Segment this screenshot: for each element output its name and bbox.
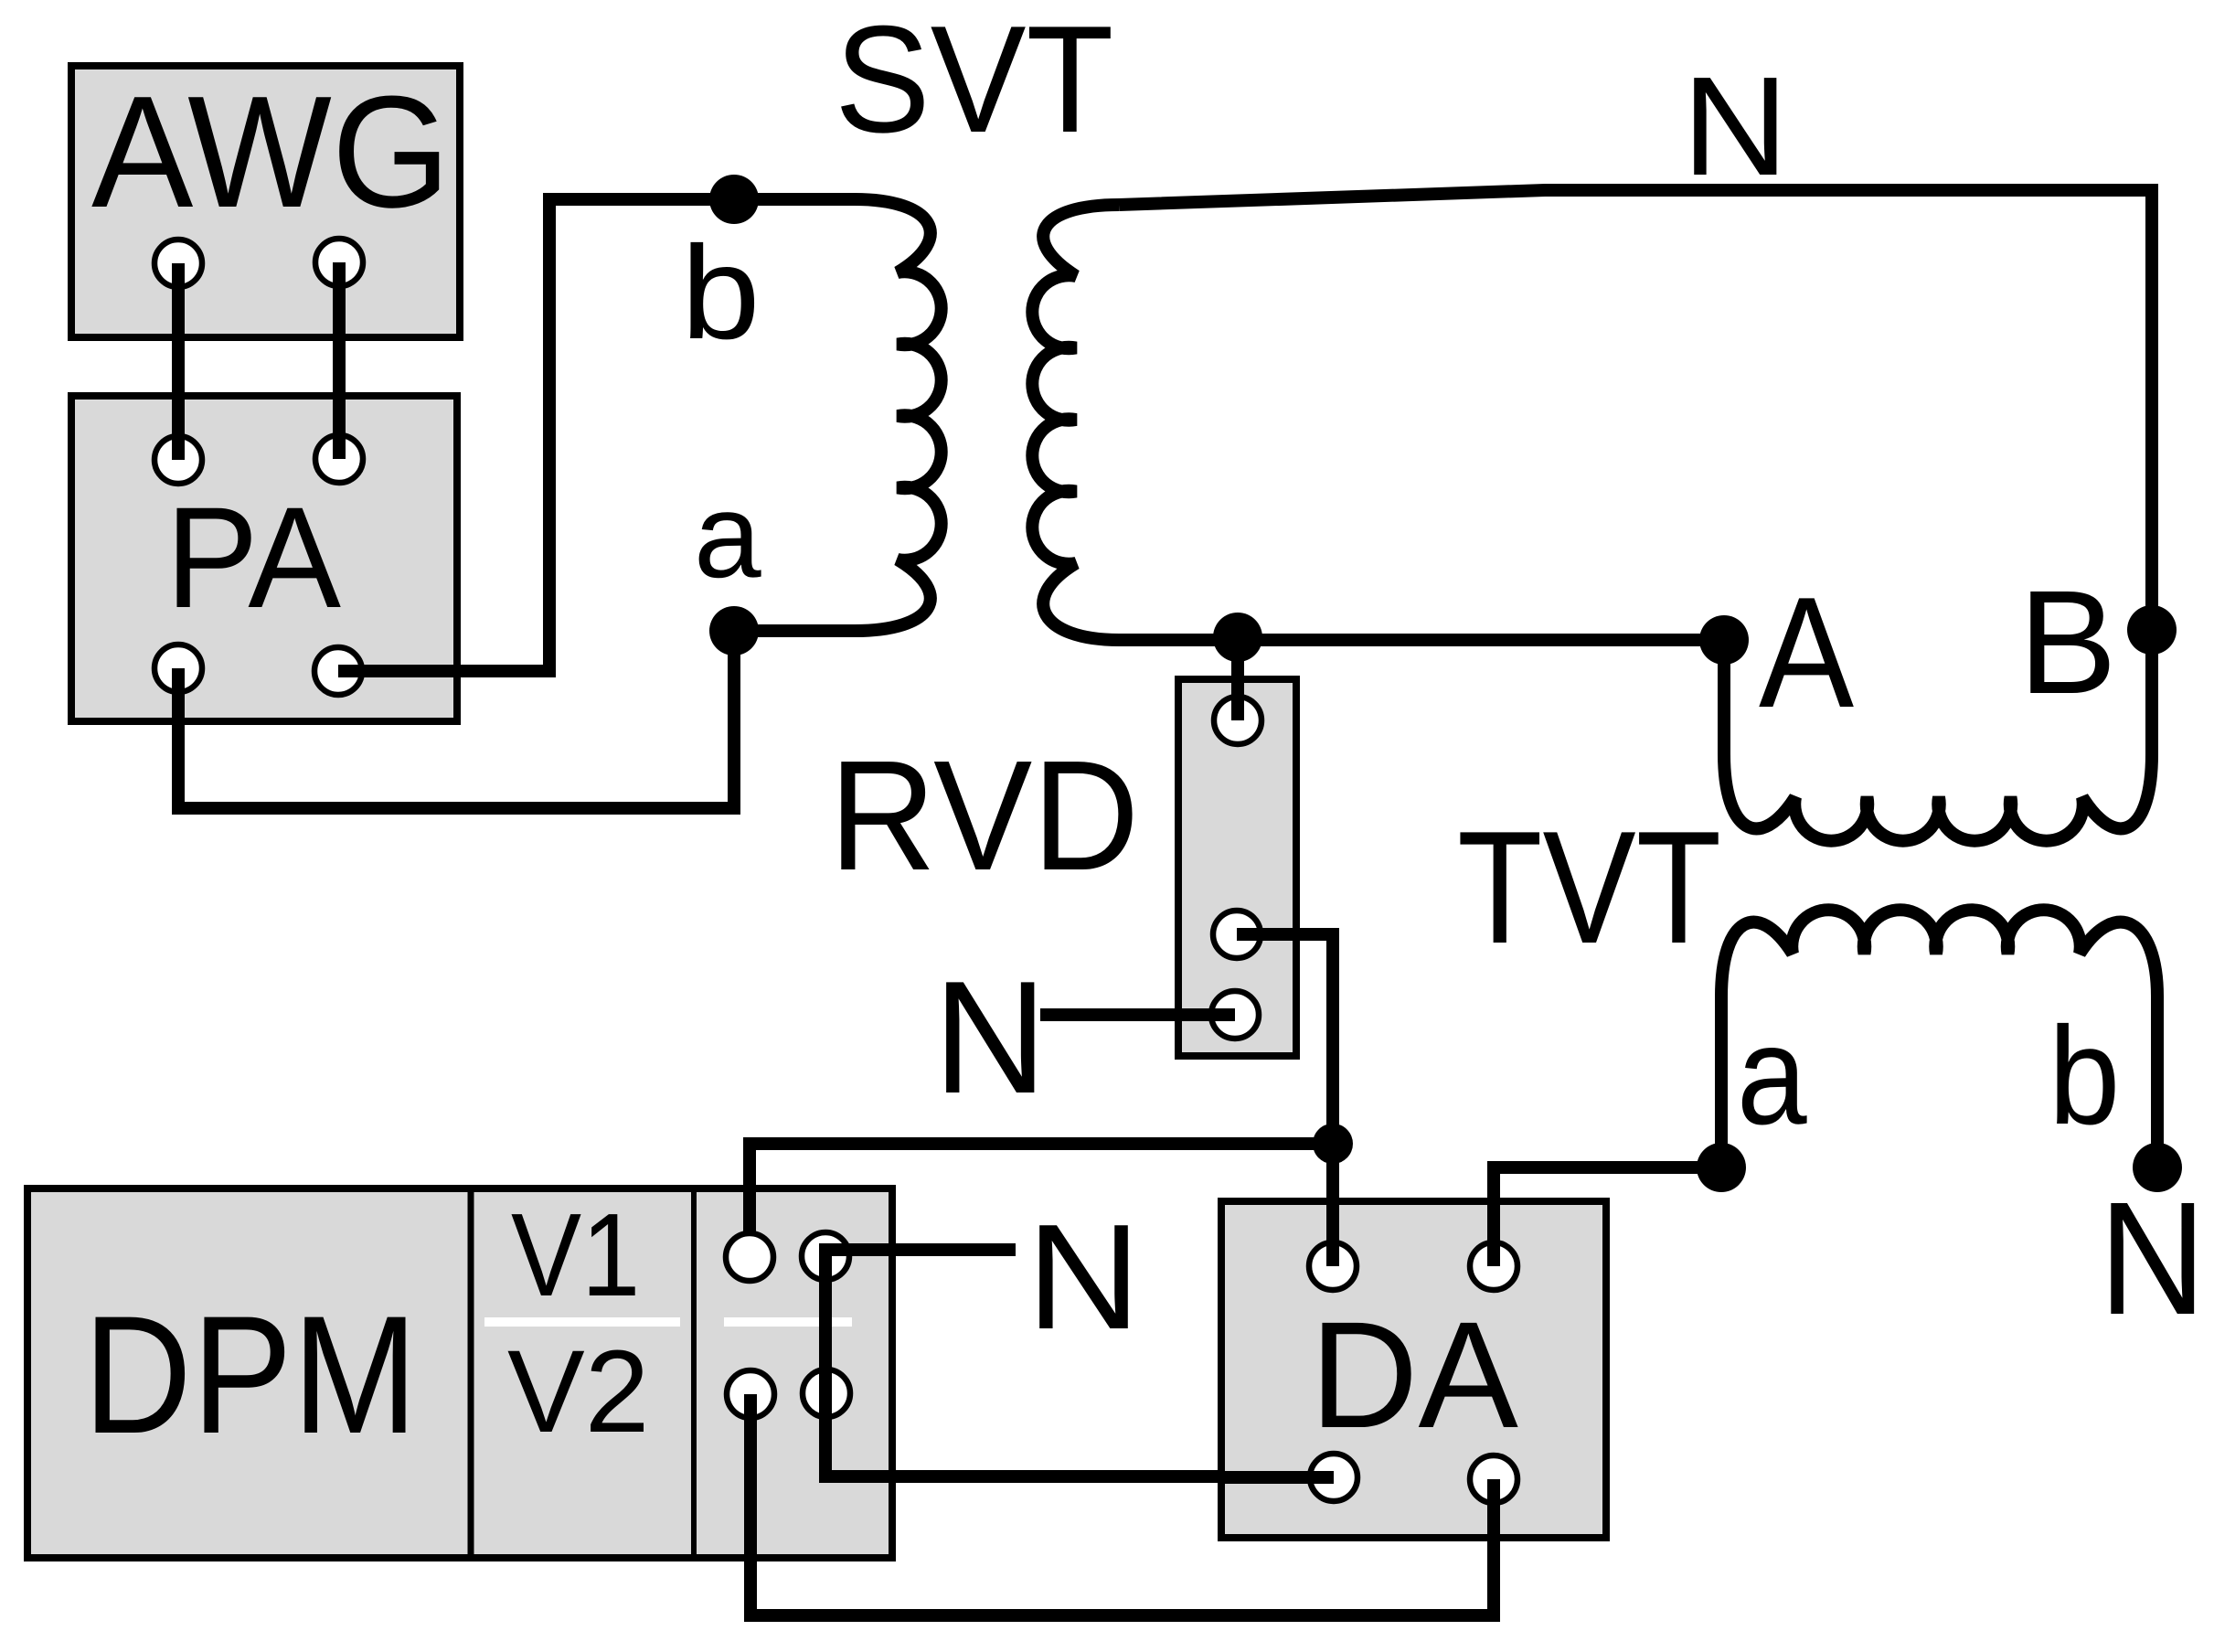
PA terminal top-left [154,436,202,484]
DA terminal top-left [1309,1242,1357,1290]
wire DPM V2-left to DA bottom-right [750,1394,1494,1615]
node RVD top junction [1213,613,1262,662]
svg-text:N: N [2099,1169,2206,1348]
svg-text:B: B [2018,560,2117,725]
DA terminal top-right [1470,1242,1517,1290]
svg-text:AWG: AWG [91,62,451,240]
wire RVD bottom to N label [1040,1008,1235,1021]
wire junction to DPM V1 left [750,1144,1333,1257]
node N' (TVT) [2133,1143,2182,1192]
DPM terminal V2-left [727,1370,774,1418]
AWG box [71,66,460,337]
svg-text:DPM: DPM [83,1281,418,1468]
svg-text:N: N [1682,48,1789,205]
svg-text:PA: PA [165,478,341,638]
svg-text:N: N [1027,1193,1141,1360]
wire PA bottom-right to node b [338,199,734,671]
DA box [1221,1201,1606,1538]
DA terminal bottom-left [1310,1454,1357,1501]
svg-text:A: A [1759,564,1854,741]
PA terminal bottom-right [314,647,362,695]
RVD box [1178,679,1296,1056]
AWG terminal right [315,239,363,286]
node b [709,175,759,224]
junction dot (RVD/DPM/DA) [1313,1124,1353,1164]
RVD terminal top [1214,697,1261,744]
node a' (TVT) [1697,1143,1746,1192]
node a [709,606,759,655]
DPM terminal V1-right [802,1232,849,1280]
wire stub DA top-right [1487,1201,1500,1266]
wire DPM V1-right to N stub and down to DA bottom-left [825,1250,1334,1476]
wire stub AWG left [172,263,185,337]
wire AWG right to PA right [333,262,346,459]
svg-text:DA: DA [1310,1291,1518,1460]
svg-text:V2: V2 [507,1327,649,1457]
RVD terminal middle [1213,911,1261,958]
svg-text:b: b [2049,998,2120,1154]
DPM terminal V1-left [726,1233,773,1281]
svg-text:N: N [933,948,1047,1127]
wire PA bottom-left to node a [178,631,734,808]
wire stub PA top-right [333,396,346,459]
svg-text:a: a [694,468,762,602]
wire SVT secondary top to N corner [1119,190,2152,754]
wire stub DA bottom-right [1487,1479,1500,1538]
wire stub AWG right [333,262,346,337]
DPM box [27,1188,892,1558]
white divider terminal section [724,1317,852,1327]
svg-text:a: a [1737,996,1807,1154]
wire stub PA top-left [172,396,185,460]
wire RVD middle to junction [1237,934,1333,1144]
wire junction down to DA top-left [1326,1144,1339,1266]
wire AWG left to PA left [172,263,185,460]
TVT secondary winding [1721,910,2157,1167]
SVT primary winding [734,199,942,631]
wire stub RVD top [1231,637,1244,720]
DA terminal bottom-right [1470,1455,1517,1503]
svg-text:RVD: RVD [829,729,1139,903]
node B [2127,605,2177,655]
svg-text:SVT: SVT [835,0,1113,165]
wire DA top-right to node a' [1494,1167,1721,1266]
wire stub DPM V1-left up [743,1144,756,1257]
SVT secondary winding [1032,205,1724,640]
RVD terminal bottom [1211,991,1259,1039]
PA terminal top-right [315,435,363,483]
DPM terminal V2-right [803,1370,850,1417]
AWG terminal left [154,240,202,287]
PA box [71,396,457,721]
wire stub DA bottom-left [1221,1471,1334,1484]
white divider V1/V2 [484,1317,680,1327]
svg-text:V1: V1 [511,1189,640,1321]
node A [1699,615,1749,665]
PA terminal bottom-left [154,645,202,692]
svg-text:TVT: TVT [1457,798,1721,977]
DPM section divider 1 [468,1188,474,1558]
DPM section divider 2 [691,1188,697,1558]
svg-text:b: b [681,218,761,367]
wire stub DA top-left [1326,1201,1339,1266]
TVT primary winding [1724,630,2152,841]
